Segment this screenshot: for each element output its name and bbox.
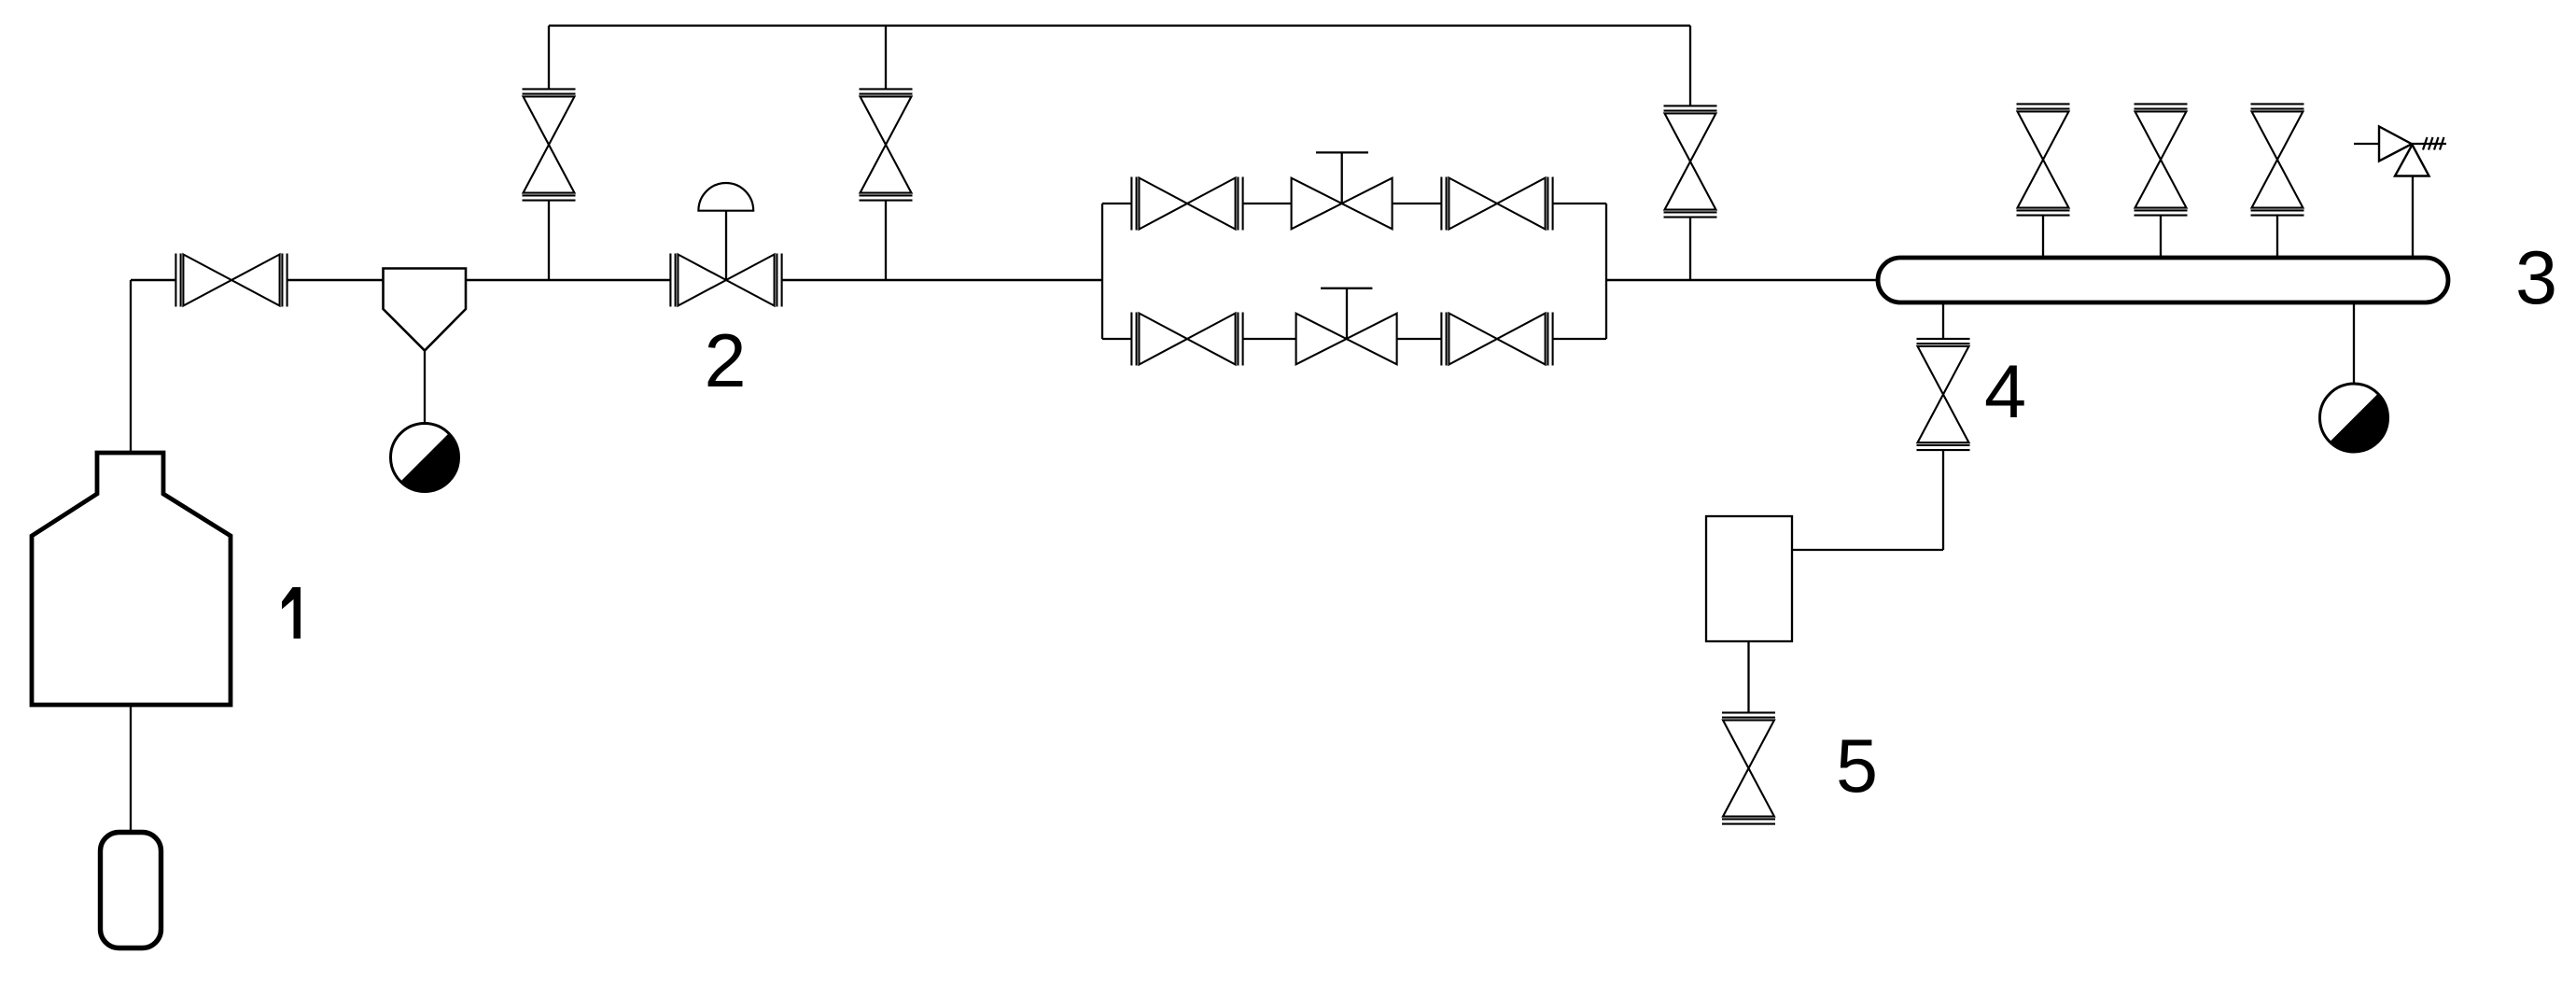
svg-text:5: 5 (1836, 724, 1878, 808)
svg-text:3: 3 (2515, 236, 2557, 320)
svg-text:2: 2 (704, 319, 746, 403)
svg-text:4: 4 (1984, 350, 2026, 434)
